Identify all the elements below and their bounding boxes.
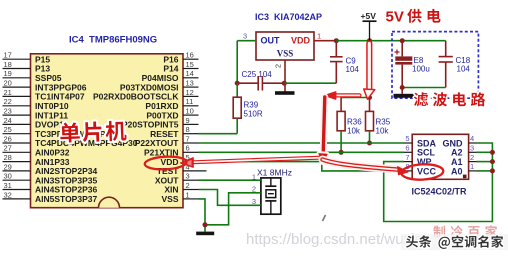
- svg-text:28: 28: [4, 153, 12, 162]
- junction A0: [490, 168, 495, 173]
- svg-text:27: 27: [4, 144, 12, 153]
- svg-text:7: 7: [186, 134, 190, 143]
- svg-text:IC4 TMP86FH09NG: IC4 TMP86FH09NG: [69, 35, 157, 46]
- IC5 pin 6 SCL: [404, 144, 436, 158]
- svg-text:8: 8: [186, 125, 190, 134]
- svg-text:11: 11: [186, 97, 194, 106]
- wire A2 stub: [477, 151, 493, 153]
- svg-text:104: 104: [346, 65, 360, 74]
- svg-text:10: 10: [186, 107, 194, 116]
- annotation curve to VCC ellipse: [323, 160, 409, 175]
- ground symbol under IC3: [275, 91, 295, 95]
- svg-text:12: 12: [186, 88, 194, 97]
- svg-text:R39: R39: [244, 101, 259, 110]
- IC4 pin 21 TC1INT4P07: [3, 88, 85, 102]
- svg-text:1: 1: [317, 32, 321, 41]
- IC5 pin 5 SDA: [404, 134, 437, 148]
- IC5 pin 4 GND: [443, 134, 477, 148]
- IC4 pin 7 P22XTOUT: [135, 134, 199, 148]
- annotation text dan pian ji: [60, 120, 127, 142]
- IC4 pin 22 INT0P10: [3, 97, 69, 111]
- IC4 pin 23 INT1P11: [3, 107, 69, 121]
- wire IC3 VDD pin1 lead: [314, 40, 336, 42]
- junction E8 bottom: [400, 85, 405, 90]
- svg-text:1: 1: [470, 162, 474, 171]
- wire +5V down to pullups: [369, 41, 371, 98]
- power symbol +5V: [361, 11, 377, 41]
- IC4 pin 27 AIN0P32: [3, 144, 70, 158]
- IC4 pin 32 AIN5STOP3P37: [3, 190, 98, 204]
- resistor R35 10k: [366, 98, 391, 144]
- svg-text:VSS: VSS: [161, 194, 178, 204]
- IC4 pin 3 XOUT: [155, 172, 199, 186]
- svg-text:https://blog.csdn.net/wuxia: https://blog.csdn.net/wuxia: [246, 231, 423, 248]
- IC4 pin 20 INT3PPGP06: [3, 79, 87, 93]
- svg-text:7: 7: [405, 153, 409, 162]
- svg-text:10k: 10k: [376, 127, 390, 136]
- IC4 pin 12 P02RXD0BOOTSCLK: [93, 88, 199, 102]
- junction VSS ground: [203, 222, 208, 227]
- svg-text:26: 26: [4, 134, 12, 143]
- svg-text:510R: 510R: [244, 110, 263, 119]
- wire A1 stub: [477, 161, 493, 163]
- IC4 pin 8 RESET: [150, 125, 198, 139]
- svg-text:31: 31: [4, 181, 12, 190]
- wire +5V rail: [336, 40, 445, 42]
- stray mark: [323, 215, 326, 221]
- junction R36/SCL: [339, 150, 344, 155]
- junction pullup rail: [367, 95, 372, 100]
- junction E8 top: [400, 38, 405, 43]
- crystal X1 body: [261, 178, 281, 214]
- IC5 pin 7 WP: [404, 153, 432, 167]
- voltage regulator U IC3 KIA7042AP body: [256, 32, 314, 60]
- wire IC3 VSS pin2 to ground: [284, 60, 286, 92]
- svg-text:25: 25: [4, 125, 12, 134]
- svg-text:+5V: +5V: [361, 11, 377, 21]
- filter circuit dashed box: [392, 32, 478, 99]
- IC4 pin 26 TC4PDO4PWM4PPG4P30: [3, 134, 138, 148]
- IC4 pin 24 DVOP12: [3, 116, 69, 130]
- svg-text:5V: 5V: [386, 9, 404, 26]
- svg-text:R35: R35: [376, 118, 391, 127]
- IC4 pin 18 P13: [3, 60, 51, 74]
- svg-text:R36: R36: [347, 118, 362, 127]
- svg-text:1: 1: [186, 190, 190, 199]
- annotation arrow left: [325, 92, 360, 99]
- wire SDA net MCU pin7 to EEPROM: [199, 142, 405, 144]
- wire X1 pin2 to ground: [205, 193, 261, 225]
- wire VDD net MCU pin5 to EEPROM VCC: [199, 162, 405, 171]
- IC4 pin 15 P14: [163, 60, 198, 74]
- resistor R36 10k: [337, 98, 362, 153]
- svg-text:21: 21: [4, 88, 12, 97]
- annotation ellipse around VDD: [144, 156, 186, 171]
- svg-text:9: 9: [186, 116, 190, 125]
- svg-text:24: 24: [4, 116, 12, 125]
- svg-text:19: 19: [4, 69, 12, 78]
- svg-text:AIN5STOP3P37: AIN5STOP3P37: [35, 194, 97, 204]
- IC4 pin 13 P03TXD0MOSI: [120, 79, 199, 93]
- wire VSS net to C9: [284, 82, 336, 84]
- resistor R39 510R: [233, 83, 263, 134]
- capacitor C18 104: [439, 41, 471, 88]
- wire pullup top rail: [341, 97, 369, 99]
- svg-text:OUT: OUT: [261, 36, 281, 46]
- IC4 pin 17 P15: [3, 51, 51, 65]
- svg-text:14: 14: [186, 69, 194, 78]
- wire OUT net vertical: [236, 41, 238, 83]
- annotation text lv bo dian lu: [414, 92, 485, 106]
- svg-text:X1 8MHz: X1 8MHz: [257, 168, 292, 178]
- IC4 pin 6 P21XTIN: [144, 144, 199, 158]
- ground symbol under E8: [394, 88, 415, 98]
- svg-text:3: 3: [470, 144, 474, 153]
- svg-text:100u: 100u: [412, 65, 430, 74]
- IC4 pin 1 VSS: [161, 190, 198, 204]
- svg-text:2: 2: [470, 153, 474, 162]
- annotation arrow down to VDD wire: [319, 97, 327, 163]
- IC5 pin 3 A2: [451, 144, 477, 158]
- IC4 pin 9 P20STOPINT5: [122, 116, 199, 130]
- wire VSS to ground: [199, 199, 206, 232]
- IC4 bottom notch: [99, 197, 120, 208]
- watermark toutiao: [401, 234, 508, 250]
- svg-text:17: 17: [4, 51, 12, 60]
- IC4 pin 30 AIN3STOP3P35: [3, 172, 98, 186]
- svg-text:5: 5: [405, 134, 409, 143]
- ground symbol under VSS: [196, 232, 214, 236]
- svg-text:2: 2: [186, 181, 190, 190]
- junction node C25/R39: [235, 81, 240, 86]
- IC4 pin 29 AIN2STOP2P34: [3, 162, 98, 176]
- svg-text:IC524C02/TR: IC524C02/TR: [412, 187, 468, 197]
- svg-text:22: 22: [4, 97, 12, 106]
- eeprom U IC5 24C02 body: [412, 134, 468, 179]
- wire SCL net MCU pin6 to EEPROM: [199, 151, 405, 153]
- IC4 pin 31 AIN4STOP2P36: [3, 181, 98, 195]
- IC5 pin 8 VCC: [404, 162, 437, 176]
- annotation arrow to VDD ellipse: [193, 158, 322, 163]
- IC4 pin 2 XIN: [164, 181, 198, 195]
- svg-text:3: 3: [243, 32, 247, 41]
- junction A1: [490, 159, 495, 164]
- junction A2: [490, 150, 495, 155]
- svg-text:2: 2: [274, 64, 283, 68]
- annotation arrow +5V down: [364, 44, 375, 100]
- IC5 pin 1 A0: [451, 162, 477, 176]
- svg-text:20: 20: [4, 79, 12, 88]
- wire WP/GND loop: [384, 143, 493, 222]
- microcontroller U IC4 TMP86FH09NG body: [31, 54, 184, 208]
- svg-text:23: 23: [4, 107, 12, 116]
- svg-text:C25 104: C25 104: [242, 70, 273, 79]
- svg-text:6: 6: [405, 144, 409, 153]
- annotation text 5V gong dian: [386, 9, 441, 26]
- capacitor C9 104: [330, 41, 359, 83]
- wire filter bottom rail: [402, 87, 446, 89]
- IC4 pin 14 P04MISO: [142, 69, 199, 83]
- annotation ellipse around VCC: [401, 163, 444, 180]
- junction node VSS/C25: [282, 81, 287, 86]
- watermark red: [433, 225, 497, 237]
- svg-text:16: 16: [186, 51, 194, 60]
- svg-text:VSS: VSS: [277, 49, 294, 59]
- capacitor C25: [237, 70, 284, 91]
- svg-text:30: 30: [4, 172, 12, 181]
- svg-text:29: 29: [4, 162, 12, 171]
- junction R35/SDA: [367, 141, 372, 146]
- svg-text:13: 13: [186, 79, 194, 88]
- IC5 pin 2 A1: [451, 153, 477, 167]
- IC4 pin 28 AIN1P33: [3, 153, 70, 167]
- svg-text:104: 104: [457, 65, 471, 74]
- IC4 pin 10 P00TXD: [146, 107, 198, 121]
- annotation arrowhead at VDD: [180, 158, 193, 168]
- electrolytic capacitor E8 100u: [395, 41, 430, 88]
- wire A0 stub: [477, 170, 493, 172]
- svg-text:18: 18: [4, 60, 12, 69]
- svg-text:4: 4: [470, 134, 474, 143]
- IC4 pin 4 TEST: [157, 162, 207, 176]
- wire XIN to X1 pin3: [199, 190, 261, 206]
- svg-text:VCC: VCC: [417, 166, 437, 176]
- IC4 pin 19 SSP05: [3, 69, 62, 83]
- svg-text:VDD: VDD: [291, 36, 311, 46]
- IC4 pin 25 TC3PDO3PWM3P31: [3, 125, 116, 139]
- svg-text:10k: 10k: [347, 127, 361, 136]
- junction +5V: [367, 38, 372, 43]
- wire XOUT to X1 pin1: [199, 179, 261, 181]
- svg-text:3: 3: [186, 172, 190, 181]
- IC4 pin 5 VDD: [161, 153, 199, 167]
- IC4 pin 16 P16: [163, 51, 198, 65]
- wire IC3 OUT pin3: [237, 40, 256, 42]
- junction C9 top: [334, 38, 339, 43]
- svg-text:15: 15: [186, 60, 194, 69]
- IC4 pin 11 P01RXD: [145, 97, 198, 111]
- svg-text:IC3 KIA7042AP: IC3 KIA7042AP: [255, 12, 322, 22]
- svg-text:A0: A0: [451, 166, 463, 176]
- svg-text:32: 32: [4, 190, 12, 199]
- svg-text:6: 6: [186, 144, 190, 153]
- wire RESET to R39: [199, 133, 238, 135]
